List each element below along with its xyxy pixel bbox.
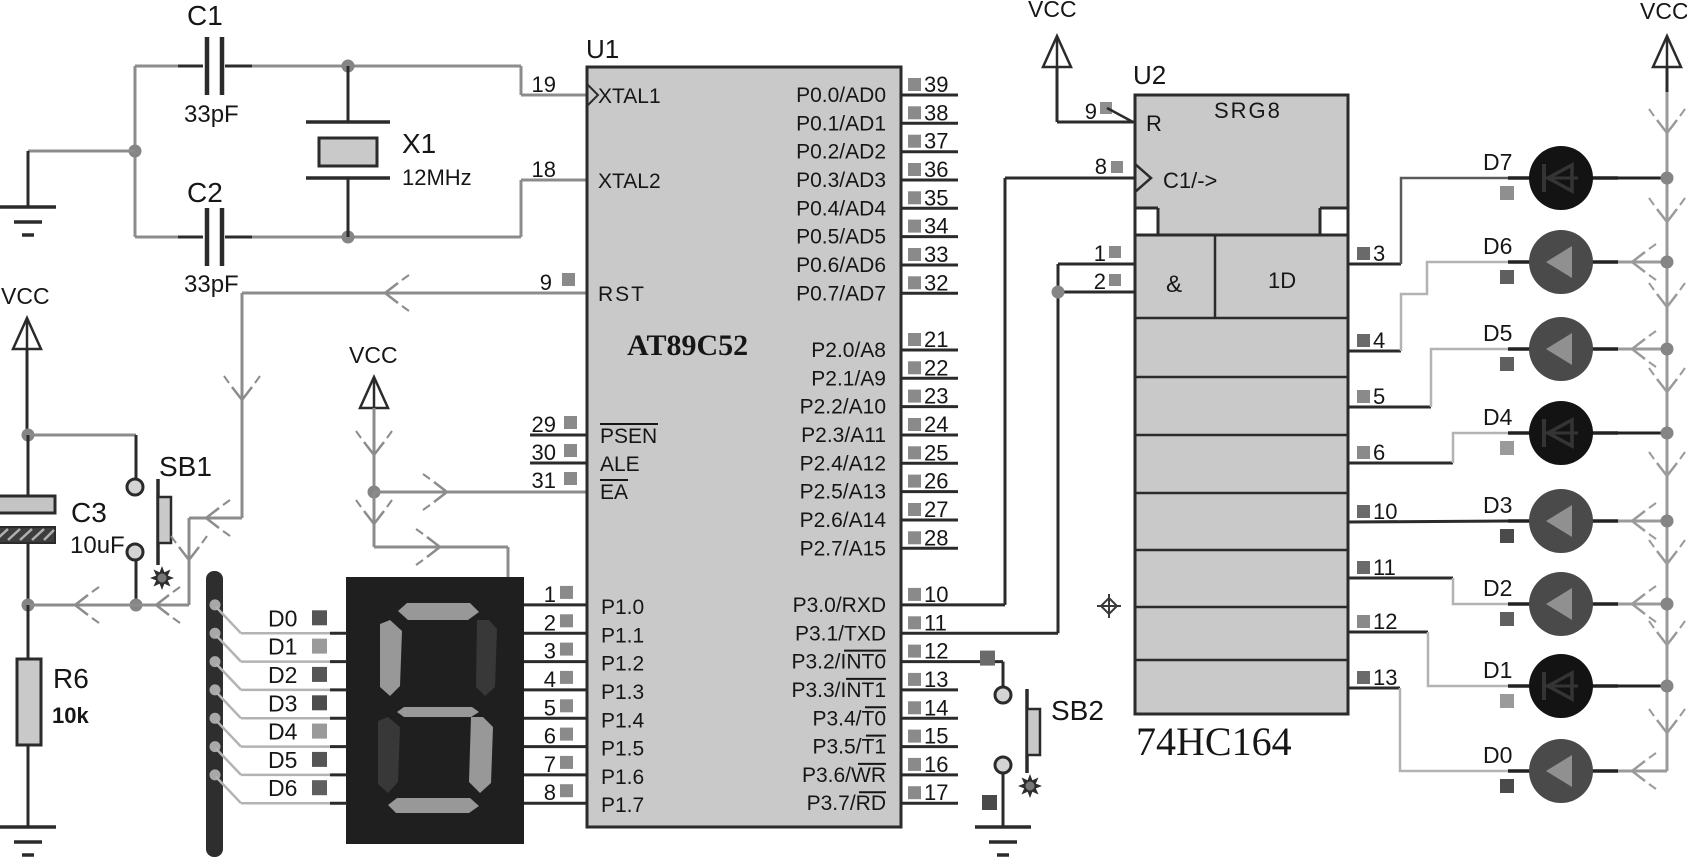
svg-text:D4: D4 (1483, 404, 1513, 430)
svg-text:EA: EA (600, 481, 628, 504)
wire: P3.1/TXD to U2 pins 1,2 (clock) (901, 632, 1058, 635)
U2 pin 4 output wire (1357, 334, 1370, 347)
svg-text:P0.1/AD1: P0.1/AD1 (796, 112, 886, 135)
U1 pin P1.3 (4) (524, 688, 587, 691)
svg-text:P1.4: P1.4 (601, 709, 645, 732)
svg-text:D6: D6 (268, 775, 297, 801)
U1 pin P1.6 (7) (524, 773, 587, 776)
LED D6 (1618, 261, 1667, 264)
ground (R6) (0, 825, 56, 829)
svg-text:ALE: ALE (600, 453, 640, 476)
connector bar J1 (display header) (206, 571, 223, 857)
svg-text:74HC164: 74HC164 (1136, 719, 1292, 764)
svg-text:P0.6/AD6: P0.6/AD6 (796, 254, 886, 277)
U1 pin P2.0/A8 (21) (901, 349, 958, 352)
origin marker (crosshair) (1097, 605, 1121, 607)
capacitor C3 10uF (electrolytic) (27, 435, 30, 496)
svg-text:33pF: 33pF (184, 101, 239, 128)
svg-text:D5: D5 (1483, 320, 1512, 346)
svg-text:24: 24 (924, 412, 948, 437)
wire: P3.2/INT0 to SB2 (901, 660, 1003, 663)
svg-text:C3: C3 (71, 497, 107, 528)
svg-text:31: 31 (532, 468, 556, 493)
U1 pin P2.5/A13 (26) (901, 490, 958, 493)
svg-text:15: 15 (924, 724, 948, 749)
U1 pin P3.1/TXD (11) (908, 616, 921, 629)
svg-text:1D: 1D (1268, 268, 1296, 293)
svg-text:P0.5/AD5: P0.5/AD5 (796, 226, 886, 249)
svg-text:P0.7/AD7: P0.7/AD7 (796, 282, 886, 305)
svg-text:R: R (1146, 111, 1162, 136)
svg-text:19: 19 (532, 72, 556, 97)
U1 pin P3.3/INT1 (13) (901, 688, 958, 691)
svg-text:D6: D6 (1483, 233, 1512, 259)
svg-text:9: 9 (1085, 99, 1097, 124)
svg-text:P2.7/A15: P2.7/A15 (800, 537, 886, 560)
svg-text:6: 6 (544, 724, 556, 749)
svg-text:3: 3 (544, 639, 556, 664)
svg-text:25: 25 (924, 440, 948, 465)
svg-text:11: 11 (1373, 555, 1396, 580)
svg-text:29: 29 (532, 412, 556, 437)
svg-text:P3.0/RXD: P3.0/RXD (793, 594, 886, 617)
node D4: connector pin dot (210, 713, 221, 724)
svg-text:D5: D5 (268, 747, 297, 773)
svg-text:P2.1/A9: P2.1/A9 (811, 367, 886, 390)
svg-text:P1.6: P1.6 (601, 766, 644, 789)
node D6: connector pin dot (210, 769, 221, 780)
svg-text:P1.0: P1.0 (601, 596, 644, 619)
svg-text:17: 17 (924, 780, 948, 805)
svg-text:13: 13 (924, 667, 948, 692)
svg-text:10uF: 10uF (70, 532, 125, 559)
U1 pin P2.1/A9 (22) (901, 377, 958, 380)
svg-text:P1.1: P1.1 (601, 624, 644, 647)
U2 clock input wedge (1135, 164, 1151, 192)
U1 pin P0.4/AD4 (35) (901, 207, 958, 210)
U1 pin P3.5/T1 (15) (901, 745, 958, 748)
node: rail junction D7 (1661, 172, 1674, 185)
svg-text:U2: U2 (1133, 60, 1166, 90)
svg-text:D4: D4 (268, 719, 298, 745)
svg-text:38: 38 (924, 100, 948, 125)
7-segment segment g (lit) (397, 707, 479, 717)
wire D1: to display (216, 635, 241, 661)
wire: SB1 bottom to reset node (135, 560, 138, 605)
svg-text:23: 23 (924, 384, 948, 409)
U1 pin P3.4/T0 (14) (901, 717, 958, 720)
svg-text:PSEN: PSEN (600, 425, 657, 448)
ground (SB2) (975, 825, 1031, 829)
wire: VCC to EA and display (373, 408, 376, 492)
LED D4 (1618, 432, 1667, 435)
wire: to ground (28, 150, 135, 153)
IC U1 AT89C52 body (587, 67, 901, 827)
svg-text:VCC: VCC (349, 342, 398, 368)
svg-text:34: 34 (924, 214, 948, 239)
svg-text:5: 5 (1373, 384, 1385, 409)
svg-text:P3.5/T1: P3.5/T1 (812, 736, 886, 759)
svg-text:10: 10 (924, 582, 948, 607)
U1 pin P3.0/RXD (10) (908, 588, 921, 601)
wire: to EA pin 31 (374, 491, 587, 494)
LED D7 (1618, 177, 1667, 180)
svg-text:8: 8 (1095, 154, 1107, 179)
svg-text:P1.2: P1.2 (601, 653, 644, 676)
svg-text:32: 32 (924, 270, 948, 295)
svg-text:21: 21 (924, 327, 948, 352)
wire: SB2 to ground (1002, 773, 1005, 827)
svg-text:4: 4 (544, 667, 556, 692)
7-segment segment e (dark) (378, 717, 400, 793)
U2 pin 13 output wire (1357, 671, 1370, 684)
U2 pin 12 output wire (1357, 615, 1370, 628)
svg-text:4: 4 (1373, 328, 1385, 353)
svg-text:8: 8 (544, 780, 556, 805)
U2 pin 5 output wire (1357, 390, 1370, 403)
LED D1 (1618, 685, 1667, 688)
capacitor C2 (205, 208, 210, 266)
7-segment segment b (dark) (476, 620, 497, 696)
node D5: connector pin dot (210, 741, 221, 752)
node: junction VCC/EA (368, 486, 381, 499)
wire: reset net to RST pin (188, 518, 191, 605)
svg-text:U1: U1 (586, 34, 619, 64)
svg-text:13: 13 (1373, 665, 1397, 690)
svg-text:D1: D1 (268, 634, 297, 660)
wire: branch to SB1 top (28, 434, 136, 437)
node D0: connector pin dot (210, 599, 221, 610)
svg-text:AT89C52: AT89C52 (627, 329, 748, 362)
capacitor C1 (205, 37, 210, 95)
svg-text:SB2: SB2 (1051, 695, 1104, 726)
svg-text:XTAL1: XTAL1 (598, 85, 661, 108)
node: junction VCC/C3/SB1 (22, 429, 35, 442)
svg-text:26: 26 (924, 469, 948, 494)
U1 pin P1.1 (2) (524, 632, 587, 635)
IC U2 74HC164 body (1135, 95, 1348, 208)
LED D0 (1618, 770, 1667, 773)
svg-text:14: 14 (924, 695, 948, 720)
wire D0: to display (216, 607, 241, 633)
svg-text:D2: D2 (1483, 575, 1512, 601)
wire: P3.0/RXD to U2 pin 8 (serial data) (901, 603, 1005, 606)
svg-text:P2.4/A12: P2.4/A12 (800, 452, 886, 475)
node: junction to ground branch (129, 145, 142, 158)
svg-text:30: 30 (532, 440, 556, 465)
node D2: connector pin dot (210, 656, 221, 667)
svg-text:SB1: SB1 (159, 451, 212, 482)
U1 pin P2.4/A12 (25) (901, 462, 958, 465)
svg-text:P3.3/INT1: P3.3/INT1 (791, 679, 886, 702)
wire: down to display common (373, 492, 376, 547)
wire: VCC to C3/SB1 node (26, 349, 29, 435)
wire: C2 bottom net to XTAL2 (pin 18) (135, 236, 203, 239)
svg-text:P2.6/A14: P2.6/A14 (800, 509, 887, 532)
svg-text:XTAL2: XTAL2 (598, 170, 661, 193)
U1 pin P0.1/AD1 (38) (901, 122, 958, 125)
node: reset net junction at C3/R6 (22, 599, 35, 612)
U2 pin 10 output wire (1357, 505, 1370, 518)
7-segment segment a (lit) (398, 603, 479, 620)
svg-text:P3.4/T0: P3.4/T0 (812, 707, 886, 730)
svg-text:C1/->: C1/-> (1163, 168, 1217, 193)
7-segment display LED1 (346, 577, 524, 844)
node: reset net junction at SB1 (130, 599, 143, 612)
svg-text:C2: C2 (187, 177, 223, 208)
svg-text:P2.0/A8: P2.0/A8 (811, 339, 886, 362)
node: rail junction D2 (1661, 598, 1674, 611)
svg-text:11: 11 (924, 610, 947, 635)
svg-text:P0.0/AD0: P0.0/AD0 (796, 84, 886, 107)
svg-text:D0: D0 (1483, 742, 1512, 768)
svg-text:P2.2/A10: P2.2/A10 (800, 396, 886, 419)
svg-text:D3: D3 (268, 690, 297, 716)
U1 pin P3.7/RD (17) (901, 802, 958, 805)
svg-text:P1.5: P1.5 (601, 738, 644, 761)
LED D3 (1618, 520, 1667, 523)
button SB1 actuator star (150, 566, 174, 590)
U2 register stage separators (1135, 317, 1348, 320)
svg-text:D0: D0 (268, 605, 297, 631)
U1 pin P1.2 (3) (524, 660, 587, 663)
svg-text:VCC: VCC (1028, 0, 1077, 22)
svg-text:P0.3/AD3: P0.3/AD3 (796, 169, 886, 192)
svg-text:10k: 10k (52, 703, 89, 728)
7-segment segment d (lit) (388, 798, 479, 813)
7-segment segment c (lit) (469, 717, 493, 793)
ground (crystal net) (0, 205, 56, 209)
svg-text:VCC: VCC (1, 283, 50, 309)
wire D3: to display (216, 692, 241, 718)
wire: reset net horizontal (28, 604, 189, 607)
resistor R6 10k (27, 605, 30, 659)
svg-text:P3.1/TXD: P3.1/TXD (795, 622, 886, 645)
U1 pin P0.0/AD0 (39) (901, 94, 958, 97)
svg-text:9: 9 (540, 270, 552, 295)
node: junction C1/X1 top (342, 60, 355, 73)
U1 pin P0.6/AD6 (33) (901, 264, 958, 267)
svg-text:P3.7/RD: P3.7/RD (807, 792, 886, 815)
push button SB2 (995, 687, 1011, 703)
node: junction C2/X1 bottom (342, 231, 355, 244)
U1 pin P1.5 (6) (524, 745, 587, 748)
svg-text:16: 16 (924, 752, 948, 777)
svg-text:35: 35 (924, 185, 948, 210)
U2 pin 6 output wire (1357, 446, 1370, 459)
svg-text:22: 22 (924, 355, 948, 380)
U2 pin 3 output wire (1357, 247, 1370, 260)
node: rail junction D4 (1661, 427, 1674, 440)
svg-text:VCC: VCC (1640, 0, 1687, 24)
svg-text:P1.7: P1.7 (601, 794, 644, 817)
svg-text:12: 12 (1373, 609, 1397, 634)
U1 pin P2.3/A11 (24) (901, 434, 958, 437)
wire D5: to display (216, 749, 241, 775)
svg-text:1: 1 (1094, 241, 1106, 266)
node: rail junction D3 (1661, 515, 1674, 528)
svg-text:28: 28 (924, 525, 948, 550)
svg-text:37: 37 (924, 129, 948, 154)
crystal X1 12MHz (347, 66, 350, 122)
svg-text:D7: D7 (1483, 149, 1512, 175)
U1 pin P3.2/INT0 (12) (908, 645, 921, 658)
push button SB1 (127, 479, 143, 495)
svg-text:18: 18 (532, 157, 556, 182)
U1 pin P0.5/AD5 (34) (901, 235, 958, 238)
svg-text:P0.4/AD4: P0.4/AD4 (796, 197, 886, 220)
svg-text:P0.2/AD2: P0.2/AD2 (796, 141, 886, 164)
node: junction U2 pins 1-2 (1052, 286, 1065, 299)
svg-text:3: 3 (1373, 241, 1385, 266)
svg-text:36: 36 (924, 157, 948, 182)
U1 pin P2.7/A15 (28) (901, 547, 958, 550)
wire D4: to display (216, 720, 241, 746)
U2 pin 11 output wire (1357, 561, 1370, 574)
svg-text:SRG8: SRG8 (1214, 98, 1282, 123)
U1 pin P2.6/A14 (27) (901, 519, 958, 522)
LED D2 (1618, 603, 1667, 606)
svg-text:&: & (1166, 271, 1182, 298)
node D1: connector pin dot (210, 628, 221, 639)
svg-text:2: 2 (1094, 269, 1106, 294)
U1 pin P1.7 (8) (524, 802, 587, 805)
U1 pin P3.6/WR (16) (901, 773, 958, 776)
svg-text:P1.3: P1.3 (601, 681, 644, 704)
U1 pin P1.4 (5) (524, 717, 587, 720)
svg-text:7: 7 (544, 752, 556, 777)
svg-text:R6: R6 (53, 663, 89, 694)
svg-text:6: 6 (1373, 440, 1385, 465)
svg-text:P2.3/A11: P2.3/A11 (801, 424, 886, 447)
svg-text:33: 33 (924, 242, 948, 267)
wire: VCC to U2 pin 9 (R) (1056, 66, 1059, 122)
svg-text:D2: D2 (268, 662, 297, 688)
svg-text:33pF: 33pF (184, 271, 239, 298)
U2 internal cell divider (1214, 235, 1217, 318)
svg-text:P3.2/INT0: P3.2/INT0 (791, 651, 886, 674)
U1 pin P0.2/AD2 (37) (901, 150, 958, 153)
svg-text:27: 27 (924, 497, 948, 522)
svg-text:1: 1 (544, 582, 556, 607)
button SB2 actuator star (1018, 774, 1042, 798)
node: rail junction D6 (1661, 256, 1674, 269)
svg-text:P3.6/WR: P3.6/WR (802, 764, 886, 787)
svg-text:D1: D1 (1483, 657, 1512, 683)
svg-text:C1: C1 (187, 0, 223, 31)
wire D2: to display (216, 664, 241, 690)
7-segment segment f (lit) (380, 620, 402, 696)
U1 pin P1.0 (1) (524, 603, 587, 606)
svg-text:12MHz: 12MHz (402, 165, 472, 190)
node D3: connector pin dot (210, 684, 221, 695)
svg-text:RST: RST (598, 283, 646, 306)
U1 pin P0.7/AD7 (32) (901, 292, 958, 295)
svg-text:12: 12 (924, 639, 948, 664)
node: rail junction D5 (1661, 343, 1674, 356)
U1 pin P0.3/AD3 (36) (901, 179, 958, 182)
node: rail junction D1 (1661, 680, 1674, 693)
wire: left vertical joining C1 and C2 (134, 66, 137, 237)
wire: C3 to reset node (27, 543, 30, 605)
svg-text:D3: D3 (1483, 492, 1512, 518)
svg-text:P2.5/A13: P2.5/A13 (800, 481, 886, 504)
wire: C1 top net to XTAL1 (pin 19) (135, 65, 203, 68)
wire D6: to display (216, 777, 241, 803)
U1 pin P2.2/A10 (23) (901, 405, 958, 408)
svg-text:39: 39 (924, 72, 948, 97)
svg-text:X1: X1 (402, 128, 436, 159)
LED D5 (1618, 348, 1667, 351)
svg-text:2: 2 (544, 610, 556, 635)
svg-text:5: 5 (544, 695, 556, 720)
